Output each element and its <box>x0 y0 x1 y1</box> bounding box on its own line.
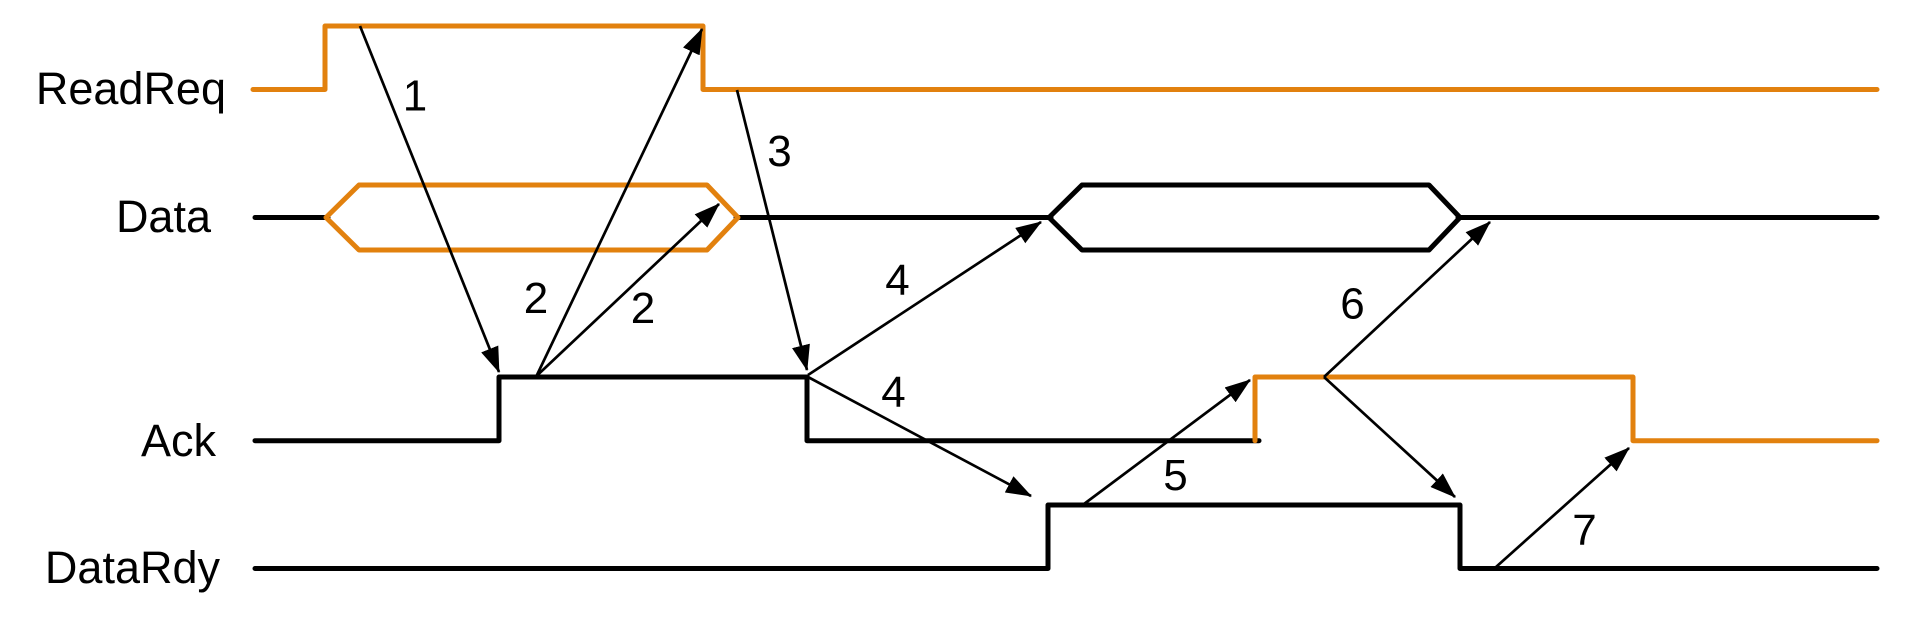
waveform Ack black part <box>255 377 1259 441</box>
svg-text:7: 7 <box>1572 506 1596 555</box>
bus valid hexagon 1 (orange) <box>326 185 738 250</box>
svg-text:3: 3 <box>767 127 791 176</box>
arrow 7 (DataRdy fall to Ack fall 2) <box>1496 448 1629 567</box>
waveform DataRdy <box>255 505 1877 569</box>
svg-text:DataRdy: DataRdy <box>45 542 221 593</box>
arrow 6a (Ack high to Data hexagon 2 end) <box>1324 222 1490 377</box>
wire Data segment middle <box>736 215 1051 220</box>
svg-text:2: 2 <box>524 274 548 323</box>
waveform ReadReq (orange pulse) <box>253 26 1877 90</box>
bus valid hexagon 2 (black) <box>1049 185 1460 250</box>
wire Data segment left <box>255 215 328 220</box>
arrow 5 (DataRdy rise to Ack rise 2) <box>1084 380 1250 504</box>
arrow 2b (Ack rise to Data hexagon end) <box>537 204 720 376</box>
arrow 6b (Ack high to DataRdy fall) <box>1324 377 1455 497</box>
svg-text:1: 1 <box>403 72 427 121</box>
svg-text:4: 4 <box>885 256 909 305</box>
arrow 2a (Ack rise to ReadReq fall) <box>537 29 703 376</box>
arrow 4a (Ack fall to Data hexagon 2 start) <box>808 222 1041 375</box>
wire Data segment right <box>1458 215 1877 220</box>
svg-text:4: 4 <box>881 368 905 417</box>
svg-text:5: 5 <box>1163 451 1187 500</box>
arrow 3 (ReadReq fall to Ack fall) <box>737 90 807 370</box>
svg-text:ReadReq: ReadReq <box>36 63 226 114</box>
waveform Ack orange part <box>1255 377 1877 441</box>
arrow 4b (Ack fall to DataRdy rise) <box>808 377 1031 496</box>
svg-text:Data: Data <box>116 191 212 242</box>
svg-text:6: 6 <box>1340 280 1364 329</box>
svg-text:Ack: Ack <box>141 415 217 466</box>
arrow 1 (ReadReq rise to Ack rise) <box>360 26 499 372</box>
svg-text:2: 2 <box>631 284 655 333</box>
